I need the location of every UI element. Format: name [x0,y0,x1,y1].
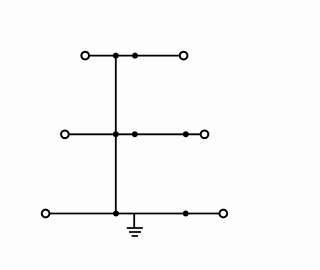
terminal: level-3 right clamp (open circle) [219,210,227,218]
wire: ground stub [133,214,135,229]
junction: level-2 right dot [183,131,189,137]
terminal: level-3 left clamp (open circle) [42,210,50,218]
terminal: level-2 right clamp (open circle) [201,130,209,138]
junction: level-2 bus tap [113,131,119,137]
ground: earth symbol bar 1 [127,227,143,229]
terminal: level-1 left clamp (open circle) [81,52,89,60]
terminal: level-1 right clamp (open circle) [180,52,188,60]
junction: level-3 right dot [183,211,189,217]
junction: level-1 mid dot [132,53,138,59]
terminal: level-2 left clamp (open circle) [61,130,69,138]
junction: level-1 bus tap [113,53,119,59]
junction: level-3 bus tap [113,211,119,217]
junction: level-2 mid dot [132,131,138,137]
wire: level-2 horizontal conductor [67,133,202,135]
wire: level-3 (PE) horizontal conductor [48,213,221,215]
wire: vertical commoning bus [115,56,117,214]
wire: level-1 horizontal conductor [87,55,181,57]
ground: earth symbol bar 2 [129,231,141,233]
ground: earth symbol bar 3 [132,235,138,237]
